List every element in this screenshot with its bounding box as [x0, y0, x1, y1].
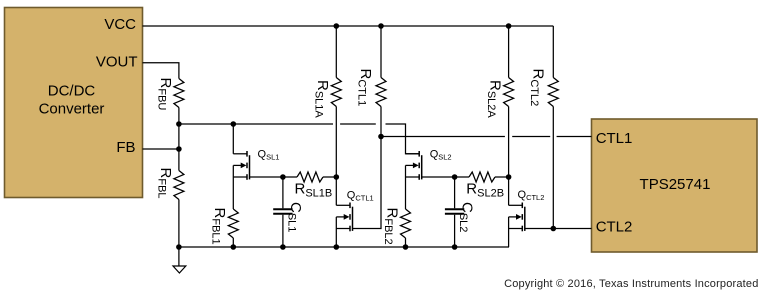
resistor R_FBL: [174, 171, 184, 200]
wire VCC rail: [143, 25, 554, 27]
wire FB line segment 1: [179, 123, 333, 125]
wire R_FBL bottom lead: [178, 200, 180, 248]
svg-text:VCC: VCC: [104, 16, 136, 33]
node VCC/R_SL1A junction: [334, 23, 340, 29]
node VCC/R_CTL1 junction: [378, 23, 384, 29]
capacitor C_SL1: [282, 177, 284, 208]
node R_SL1B / R_SL1A / Q_CTL1 drain junction: [334, 174, 340, 180]
wire Q_CTL2 source to ground rail: [508, 229, 510, 248]
svg-text:RCTL1: RCTL1: [356, 69, 375, 107]
node ground/C_SL1 junction: [280, 244, 286, 250]
resistor R_FBL2: [401, 209, 411, 238]
resistor R_FBL1: [228, 209, 238, 238]
wire Q_CTL1 drain lead: [335, 177, 337, 205]
node R_SL2B / R_SL2A / Q_CTL2 drain junction: [506, 174, 512, 180]
resistor R_CTL1: [380, 26, 382, 78]
wire Q_CTL1 gate to CTL1 net: [353, 137, 382, 229]
wire VOUT to R_FBU: [143, 63, 179, 79]
resistor R_CTL2: [552, 26, 554, 78]
wire R_FBU bottom lead: [178, 108, 180, 125]
node CTL2 junction: [551, 226, 557, 232]
resistor R_SL1B: [283, 176, 297, 178]
wire Q_SL1 source to R_FBL1: [232, 177, 234, 209]
wire R_FBU junction down to R_FBL: [178, 124, 180, 171]
wire Q_CTL2 gate / CTL2 line: [525, 228, 592, 230]
node ground/Q_CTL1 source junction: [334, 244, 340, 250]
wire ground rail: [179, 246, 509, 248]
transistor Q_CTL2: [521, 203, 523, 209]
wire CTL1 line segment 1: [381, 136, 505, 138]
svg-text:RFBL: RFBL: [156, 168, 175, 199]
svg-text:QSL1: QSL1: [258, 148, 280, 161]
svg-text:CTL2: CTL2: [596, 219, 633, 236]
wire FB line segment 2 (break over R_SL1A): [340, 123, 376, 125]
ground: [178, 247, 180, 266]
wire Q_SL2 source to R_FBL2: [405, 177, 407, 209]
svg-text:VOUT: VOUT: [96, 53, 138, 70]
TPS25741 block: [592, 119, 758, 252]
wire R_FBL1 bottom lead: [232, 238, 234, 247]
svg-text:RFBU: RFBU: [156, 78, 175, 111]
node ground/R_FBL1 junction: [231, 244, 237, 250]
svg-text:RSL2A: RSL2A: [485, 80, 504, 118]
svg-text:RSL1B: RSL1B: [295, 181, 333, 200]
resistor R_SL1A: [335, 26, 337, 78]
wire Q_SL1 gate lead: [250, 176, 283, 178]
node FB pin junction: [176, 146, 182, 152]
svg-text:Converter: Converter: [39, 101, 105, 118]
svg-text:CTL1: CTL1: [596, 130, 633, 147]
node Q_SL1 drain junction: [231, 121, 237, 127]
wire R_FBL2 bottom lead: [405, 238, 407, 247]
wire FB line segment 3 to Q_SL2 drain: [386, 124, 420, 154]
svg-text:FB: FB: [116, 139, 135, 156]
node Q_SL2 gate / C_SL2 / R_SL2B junction: [452, 174, 458, 180]
DC/DC Converter block: [5, 8, 143, 198]
node ground/R_FBL junction: [176, 244, 182, 250]
svg-text:CSL1: CSL1: [286, 202, 305, 232]
svg-text:CSL2: CSL2: [457, 202, 476, 232]
transistor Q_SL1: [246, 151, 248, 157]
svg-text:RCTL2: RCTL2: [528, 69, 547, 107]
wire Q_CTL1 source to ground: [335, 229, 337, 248]
resistor R_FBU: [174, 79, 184, 108]
transistor Q_SL2: [418, 151, 420, 157]
svg-text:RSL2B: RSL2B: [466, 181, 504, 200]
svg-text:TPS25741: TPS25741: [640, 176, 711, 193]
resistor R_SL2A: [508, 26, 510, 78]
svg-text:DC/DC: DC/DC: [48, 83, 96, 100]
node ground/C_SL2 junction: [452, 244, 458, 250]
capacitor C_SL2: [454, 177, 456, 208]
svg-text:Copyright © 2016, Texas Instru: Copyright © 2016, Texas Instruments Inco…: [504, 278, 758, 290]
svg-text:QCTL2: QCTL2: [518, 189, 545, 202]
transistor Q_CTL1: [349, 203, 351, 209]
node ground/R_FBL2 junction: [403, 244, 409, 250]
wire Q_SL2 gate lead: [422, 176, 455, 178]
node VCC/R_SL2A junction: [506, 23, 512, 29]
resistor R_SL2B: [455, 176, 469, 178]
svg-text:QCTL1: QCTL1: [347, 190, 374, 203]
svg-text:RFBL1: RFBL1: [210, 208, 229, 245]
svg-text:RFBL2: RFBL2: [382, 208, 401, 245]
node CTL1 junction: [378, 134, 384, 140]
svg-text:QSL2: QSL2: [430, 148, 452, 161]
wire Q_SL1 drain lead: [232, 124, 234, 154]
svg-text:RSL1A: RSL1A: [313, 80, 332, 118]
wire Q_CTL2 drain lead: [508, 177, 510, 205]
wire FB pin: [143, 148, 179, 150]
node R_FBU/FB-line junction: [176, 121, 182, 127]
wire CTL1 line segment 2 (break over R_SL2A): [512, 136, 550, 138]
node Q_SL1 gate / C_SL1 / R_SL1B junction: [280, 174, 286, 180]
wire CTL1 line segment 3 to TPS25741: [557, 136, 592, 138]
